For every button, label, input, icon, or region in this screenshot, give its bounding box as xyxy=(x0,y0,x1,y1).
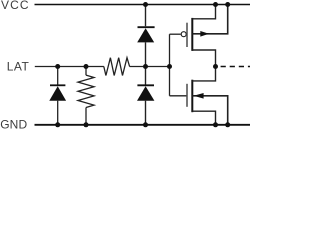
wire VCC rail xyxy=(35,4,251,6)
junction GND / D1 anode xyxy=(55,122,60,127)
junction GND / D3 anode xyxy=(143,122,148,127)
wire output (dashed continuation) xyxy=(221,66,250,68)
junction VCC / Q1 source xyxy=(213,2,218,7)
junction VCC / Q1 body xyxy=(225,2,230,7)
wire NMOS gate lead xyxy=(170,95,188,97)
wire GND rail xyxy=(35,124,251,126)
wire diode D2 branch bottom xyxy=(145,42,147,66)
svg-text:LAT: LAT xyxy=(7,60,30,74)
junction VCC / D2 cathode xyxy=(143,2,148,7)
gate bubble (PMOS inverter input) xyxy=(181,32,186,37)
wire diode D1 branch bottom xyxy=(57,101,59,125)
junction LAT / D1 xyxy=(55,64,60,69)
wire diode D1 branch top xyxy=(57,67,59,85)
junction GND / Q2 source xyxy=(213,122,218,127)
wire diode D3 branch bottom xyxy=(145,101,147,125)
svg-text:VCC: VCC xyxy=(1,0,30,12)
wire LAT right segment xyxy=(130,66,170,68)
wire LAT left segment xyxy=(35,66,104,68)
svg-text:GND: GND xyxy=(0,118,27,130)
wire resistor R1 branch top xyxy=(85,67,87,76)
transistor Q1 (PMOS) xyxy=(187,5,228,67)
junction output node xyxy=(213,64,218,69)
junction LAT / gates xyxy=(167,64,172,69)
junction GND / R1 xyxy=(84,122,89,127)
wire resistor R1 branch bottom xyxy=(85,108,87,125)
wire PMOS gate lead xyxy=(170,33,181,35)
transistor Q2 (NMOS) xyxy=(187,67,228,125)
junction LAT / D2-D3 xyxy=(143,64,148,69)
diode D3 (GND to LAT clamp) xyxy=(137,85,154,100)
diode D2 (LAT to VCC clamp) xyxy=(137,27,154,42)
wire diode D3 branch top xyxy=(145,67,147,85)
wire gate column xyxy=(169,34,171,96)
junction GND / Q2 body xyxy=(225,122,230,127)
wire diode D2 branch top xyxy=(145,5,147,27)
resistor R1 (vertical, LAT to GND) xyxy=(78,75,94,107)
resistor R2 (horizontal, LAT series) xyxy=(104,58,130,76)
junction LAT / R1 xyxy=(84,64,89,69)
diode D1 (GND to LAT clamp) xyxy=(49,85,66,100)
